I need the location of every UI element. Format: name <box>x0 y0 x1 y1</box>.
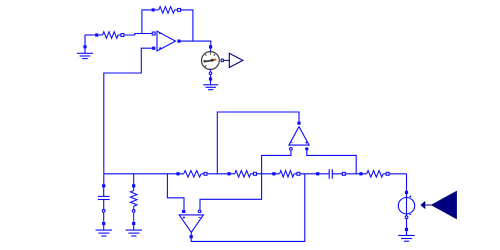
wire feedback right down to output <box>181 10 193 41</box>
signal wire <box>425 204 431 206</box>
wire chain down to current source <box>406 174 408 191</box>
wire U1 plus input down-left to bottom node <box>104 48 152 174</box>
capacitor C2 <box>316 169 345 179</box>
input connector IN1 <box>432 191 457 218</box>
ground G3 under C1 <box>96 222 112 236</box>
sensor output port <box>221 59 229 62</box>
ground G5 under current source <box>398 228 414 241</box>
op-amp U3 <box>179 210 203 239</box>
ground G4 under R3 <box>126 222 142 236</box>
capacitor C1 <box>98 174 110 222</box>
resistor R3 vertical <box>130 174 137 222</box>
op-amp U2 <box>289 122 309 151</box>
wire feedback left vertical <box>142 10 152 34</box>
wire chain to U3 left input <box>167 174 184 210</box>
gain block T1 <box>229 53 243 67</box>
wire U1 output to sensor <box>181 41 211 45</box>
resistor R2 feedback <box>152 7 181 14</box>
wire R1 to op-amp U1 negative input <box>124 34 152 36</box>
resistor R5 <box>227 171 256 178</box>
resistor R6 <box>272 171 300 178</box>
input port arrow of I1 <box>420 201 425 209</box>
ground G2 under sensor <box>203 77 218 89</box>
wire chain up to U2 output <box>217 112 299 174</box>
current source I1 <box>398 191 414 228</box>
wire ground to R1 <box>85 34 96 36</box>
resistor R1 <box>95 32 124 39</box>
voltage sensor S1 <box>202 45 220 77</box>
node U1 output <box>177 40 180 43</box>
op-amp U1 <box>152 31 175 51</box>
ground G1 <box>77 35 93 59</box>
wire main chain <box>104 173 407 175</box>
resistor R4 <box>176 171 207 178</box>
wire U2 right input to chain <box>307 151 356 174</box>
wire U2 left input down to U3 right input <box>200 151 291 210</box>
resistor R7 <box>359 171 389 178</box>
wire U3 output feedback to chain <box>191 174 305 242</box>
